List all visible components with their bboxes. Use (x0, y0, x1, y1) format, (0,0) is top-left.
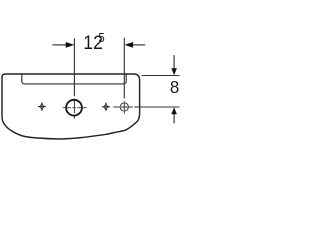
svg-text:5: 5 (98, 31, 105, 46)
fastening marker right (102, 102, 110, 111)
dimension 12.5 right tail (133, 44, 146, 46)
supply hole vertical centerline (123, 101, 125, 114)
svg-text:8: 8 (170, 77, 179, 97)
fastening marker left (38, 102, 46, 111)
supply hole horizontal centerline (113, 106, 133, 108)
dimension 8 top arrow (down) (171, 68, 177, 75)
dimension 8 bottom extension line (134, 106, 179, 108)
cistern body outer outline (2, 74, 140, 139)
dimension 8 top tail (173, 55, 175, 69)
dimension 12.5 left arrow (66, 42, 75, 48)
dimension 12.5 right arrow (125, 42, 134, 48)
extension line right (supply hole centerline) (123, 38, 125, 99)
dimension 8 bottom arrow (up) (171, 107, 177, 114)
dimension 12.5 left tail (52, 44, 66, 46)
flush valve horizontal centerline (63, 107, 87, 109)
dimension 8 bottom tail (173, 114, 175, 123)
extension line left (flush valve centerline) (73, 38, 75, 96)
cistern lid seam inner line (22, 74, 126, 84)
flush valve circle (66, 100, 82, 116)
supply hole dashed circle (120, 103, 128, 111)
dimension 8 top extension line (142, 75, 180, 77)
flush valve vertical centerline through circle (73, 99, 75, 119)
